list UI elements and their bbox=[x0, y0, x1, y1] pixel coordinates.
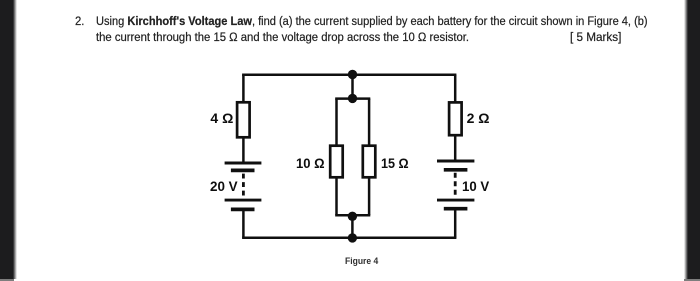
wire top rail bbox=[242, 73, 456, 76]
battery B2 10V plate short top bbox=[444, 168, 468, 172]
value label 4 ohm bbox=[210, 110, 233, 126]
wire inner bottom rail bbox=[335, 214, 370, 217]
wire inner bottom node to bottom rail bbox=[351, 216, 354, 238]
resistor R4 15ohm bbox=[363, 146, 376, 178]
value label 20 V bbox=[210, 178, 238, 194]
wire right battery to bottom rail bbox=[454, 209, 457, 238]
battery B2 dashed cell link bbox=[454, 173, 457, 198]
caption Figure 4 bbox=[345, 256, 378, 267]
wire bottom rail bbox=[242, 237, 456, 240]
wire inner left branch lower bbox=[335, 177, 338, 215]
wire inner top rail bbox=[335, 97, 370, 100]
question text line 1 bbox=[96, 14, 648, 28]
right dark bar bbox=[688, 0, 700, 279]
battery B2 10V plate long top bbox=[437, 160, 474, 163]
wire inner right branch upper bbox=[368, 99, 371, 147]
wire left battery to bottom rail bbox=[242, 209, 245, 237]
value label 10 V bbox=[462, 178, 489, 194]
battery B1 20V plate short top bbox=[231, 169, 255, 173]
value label 10 ohm bbox=[296, 155, 325, 171]
resistor R3 10ohm bbox=[330, 146, 343, 178]
wire left resistor to battery bbox=[242, 137, 245, 163]
question number 2. bbox=[75, 14, 84, 28]
question text line 2 bbox=[96, 30, 469, 44]
battery B2 10V plate short bottom bbox=[444, 207, 468, 211]
wire top node to inner box bbox=[351, 75, 354, 99]
node inner bottom junction bbox=[348, 212, 357, 221]
wire inner right branch lower bbox=[368, 177, 371, 215]
node inner top junction bbox=[348, 94, 357, 103]
resistor R1 4ohm bbox=[237, 102, 250, 137]
resistor R2 2ohm bbox=[449, 102, 462, 135]
wire left branch upper bbox=[242, 75, 245, 103]
battery B1 20V plate long bottom bbox=[225, 199, 262, 202]
left dark bar bbox=[0, 0, 13, 279]
battery B1 dashed cell link bbox=[242, 174, 245, 198]
wire inner left branch upper bbox=[335, 99, 338, 147]
value label 2 ohm bbox=[467, 110, 490, 126]
battery B1 20V plate long top bbox=[225, 162, 262, 165]
node top junction bbox=[348, 70, 357, 79]
battery B1 20V plate short bottom bbox=[231, 208, 255, 212]
wire right resistor to battery bbox=[454, 135, 457, 161]
node bottom junction bbox=[348, 233, 357, 242]
value label 15 ohm bbox=[381, 155, 409, 171]
battery B2 10V plate long bottom bbox=[437, 199, 474, 202]
marks label bbox=[570, 30, 621, 44]
wire right branch upper bbox=[454, 75, 457, 103]
